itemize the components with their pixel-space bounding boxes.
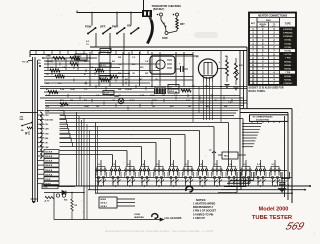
svg-text:100K: 100K <box>152 100 157 102</box>
svg-text:100K: 100K <box>70 89 75 91</box>
svg-text:NOVAL TUBES.: NOVAL TUBES. <box>249 90 266 93</box>
svg-text:MODE: MODE <box>101 199 107 201</box>
svg-text:NOVAL: NOVAL <box>284 68 292 71</box>
svg-text:COND: COND <box>134 214 141 216</box>
svg-text:TIP: TIP <box>25 133 29 135</box>
svg-text:NE-2: NE-2 <box>224 156 228 158</box>
svg-text:S-8: S-8 <box>199 164 202 166</box>
svg-text:T-2: T-2 <box>169 87 172 89</box>
svg-text:4 PRONG: 4 PRONG <box>283 28 293 31</box>
svg-text:COMPAC: COMPAC <box>283 82 293 85</box>
svg-text:CBA R: CBA R <box>45 182 51 185</box>
svg-text:M: M <box>163 23 165 25</box>
svg-text:CPI: CPI <box>45 142 49 144</box>
svg-text:SW B-2: SW B-2 <box>101 206 107 208</box>
svg-text:SW-B: SW-B <box>169 91 175 93</box>
svg-text:+4.7V: +4.7V <box>44 200 50 203</box>
svg-text:2.2K: 2.2K <box>46 95 51 97</box>
svg-text:TC: TC <box>209 150 212 152</box>
svg-text:C-3: C-3 <box>132 57 136 59</box>
svg-text:OCTAL: OCTAL <box>284 42 292 45</box>
svg-text:OCTAL: OCTAL <box>284 49 292 52</box>
svg-text:3W: 3W <box>118 57 121 59</box>
svg-text:SOCKET 12 IS ALSO USED FOR: SOCKET 12 IS ALSO USED FOR <box>249 87 284 90</box>
svg-text:(SOCKET): (SOCKET) <box>153 9 164 11</box>
svg-text:S-6: S-6 <box>170 164 173 166</box>
svg-text:S-10: S-10 <box>228 164 232 166</box>
svg-text:C-8: C-8 <box>145 61 149 63</box>
svg-text:PWR: PWR <box>112 25 118 29</box>
svg-text:ON: ON <box>127 24 131 28</box>
svg-text:C-1-5: C-1-5 <box>101 51 106 53</box>
svg-text:SW: SW <box>118 89 121 91</box>
svg-text:14 WIRED TO PIN: 14 WIRED TO PIN <box>193 213 214 216</box>
svg-text:R2: R2 <box>75 205 77 207</box>
svg-text:C7A R: C7A R <box>45 178 51 181</box>
svg-text:1N: 1N <box>38 63 41 65</box>
svg-text:NOVAL: NOVAL <box>284 75 292 78</box>
svg-text:C6A R-B: C6A R-B <box>45 173 53 176</box>
svg-text:TRANSISTOR CHECKING: TRANSISTOR CHECKING <box>152 5 182 8</box>
svg-text:1M: 1M <box>188 106 191 108</box>
svg-text:S-C: S-C <box>86 41 90 43</box>
svg-text:100K: 100K <box>125 89 130 91</box>
svg-text:C4A R-B: C4A R-B <box>45 164 53 167</box>
svg-text:C-2-3: C-2-3 <box>101 78 106 80</box>
svg-text:1-BV: 1-BV <box>45 129 50 131</box>
svg-text:Model 2000: Model 2000 <box>259 207 289 213</box>
svg-text:GBL: GBL <box>45 138 50 140</box>
svg-text:R9: R9 <box>225 56 228 58</box>
svg-text:S-5: S-5 <box>156 164 159 166</box>
svg-text:NOVAL: NOVAL <box>284 78 292 81</box>
svg-text:S-12: S-12 <box>257 164 261 166</box>
svg-text:220: 220 <box>140 67 144 69</box>
svg-text:OCTAL: OCTAL <box>284 39 292 42</box>
svg-text:GRID: GRID <box>45 111 50 113</box>
svg-text:S-3: S-3 <box>127 164 130 166</box>
svg-text:C3A R-B: C3A R-B <box>45 160 53 163</box>
svg-text:S-9: S-9 <box>214 164 217 166</box>
svg-text:OFF: OFF <box>100 25 106 29</box>
svg-text:RA: RA <box>21 129 24 132</box>
svg-text:H.V.: H.V. <box>272 26 276 28</box>
svg-text:2.2K: 2.2K <box>60 89 65 91</box>
svg-text:50A H-BU: 50A H-BU <box>45 119 54 122</box>
svg-text:C5A R-B: C5A R-B <box>45 169 53 172</box>
svg-text:2 PIN 5 OF SOCKET: 2 PIN 5 OF SOCKET <box>193 210 217 213</box>
svg-text:SKT: SKT <box>251 23 256 25</box>
svg-text:Downloaded from the internet s: Downloaded from the internet schematic a… <box>105 229 213 233</box>
svg-text:CPD: CPD <box>45 133 50 135</box>
svg-text:+: + <box>179 63 181 66</box>
svg-text:6 PRONG: 6 PRONG <box>283 36 293 38</box>
svg-text:R4: R4 <box>112 60 115 63</box>
svg-text:7 PIN: 7 PIN <box>285 58 291 60</box>
svg-text:TD: TD <box>38 60 41 62</box>
svg-text:R4: R4 <box>125 78 128 81</box>
svg-text:S-13: S-13 <box>272 164 276 166</box>
svg-text:TO CB: TO CB <box>22 62 29 64</box>
svg-text:1 CIRCUIT: 1 CIRCUIT <box>193 217 205 220</box>
svg-text:CSL: CSL <box>45 124 50 126</box>
svg-text:.05: .05 <box>46 74 50 76</box>
svg-text:1M: 1M <box>96 106 99 108</box>
svg-text:569: 569 <box>284 221 306 233</box>
svg-text:TYPE: TYPE <box>285 23 291 25</box>
svg-text:1M: 1M <box>70 100 73 102</box>
svg-text:NOTES:: NOTES: <box>196 198 206 202</box>
svg-text:C6AL: C6AL <box>43 186 49 189</box>
svg-text:LOCTAL: LOCTAL <box>284 53 293 56</box>
svg-text:.05: .05 <box>132 73 136 75</box>
svg-text:7 PIN: 7 PIN <box>285 72 291 74</box>
svg-text:R10: R10 <box>239 65 244 67</box>
svg-text:S-1: S-1 <box>98 164 101 166</box>
svg-text:2.2K: 2.2K <box>140 95 145 97</box>
svg-text:100K: 100K <box>150 95 155 97</box>
svg-text:TUBE TESTER: TUBE TESTER <box>252 215 293 221</box>
svg-text:INDEPENDENTLY: INDEPENDENTLY <box>193 206 214 209</box>
svg-text:V1: V1 <box>196 57 199 59</box>
svg-text:OCTAL: OCTAL <box>284 46 292 49</box>
svg-text:COM: COM <box>162 38 167 40</box>
svg-text:C-3: C-3 <box>84 89 88 91</box>
svg-text:S-11: S-11 <box>243 164 247 166</box>
svg-text:3W: 3W <box>162 95 165 97</box>
svg-text:( ALL HEATERS: ( ALL HEATERS <box>164 217 182 220</box>
svg-text:HEATER CONNECTIONS: HEATER CONNECTIONS <box>258 14 288 17</box>
svg-text:R21: R21 <box>64 200 67 202</box>
svg-text:1M: 1M <box>152 106 155 108</box>
svg-text:7-BF: 7-BF <box>45 147 50 149</box>
svg-text:TO CORRESPONDING: TO CORRESPONDING <box>253 117 274 119</box>
svg-text:POW: POW <box>85 25 92 29</box>
svg-text:+: + <box>219 61 221 64</box>
svg-text:C1A R-B: C1A R-B <box>45 151 53 154</box>
svg-text:S-7: S-7 <box>185 164 188 166</box>
svg-text:3W: 3W <box>46 83 49 85</box>
svg-text:S-1-5: S-1-5 <box>101 65 106 67</box>
svg-text:3W: 3W <box>145 73 148 75</box>
svg-text:47: 47 <box>140 78 143 81</box>
svg-text:SOCKET PINS: SOCKET PINS <box>256 120 270 122</box>
svg-text:3W: 3W <box>46 106 49 108</box>
svg-text:PINS: PINS <box>266 20 271 22</box>
svg-text:SW A-2: SW A-2 <box>101 201 107 204</box>
svg-text:NOVAL: NOVAL <box>284 60 292 63</box>
svg-text:100K: 100K <box>84 106 89 108</box>
svg-text:HEATERS: HEATERS <box>134 216 144 219</box>
svg-text:5 PRONG: 5 PRONG <box>283 32 293 34</box>
svg-text:SW: SW <box>224 106 227 108</box>
svg-text:NOVAL: NOVAL <box>284 64 292 67</box>
svg-text:C2A R-B: C2A R-B <box>45 155 53 158</box>
svg-text:6.3V: 6.3V <box>186 100 191 102</box>
svg-text:C1: C1 <box>86 44 89 46</box>
svg-text:1 HEATERS WIRED: 1 HEATERS WIRED <box>193 203 216 206</box>
svg-text:RST: RST <box>180 24 185 26</box>
svg-text:LINE: LINE <box>46 56 51 58</box>
svg-text:S-1-8: S-1-8 <box>104 93 109 95</box>
svg-text:1M: 1M <box>58 74 61 76</box>
svg-text:FUSE: FUSE <box>46 61 52 63</box>
svg-text:CPO: CPO <box>45 115 50 117</box>
svg-text:UNE: UNE <box>20 119 25 121</box>
svg-text:S-2: S-2 <box>112 164 115 166</box>
